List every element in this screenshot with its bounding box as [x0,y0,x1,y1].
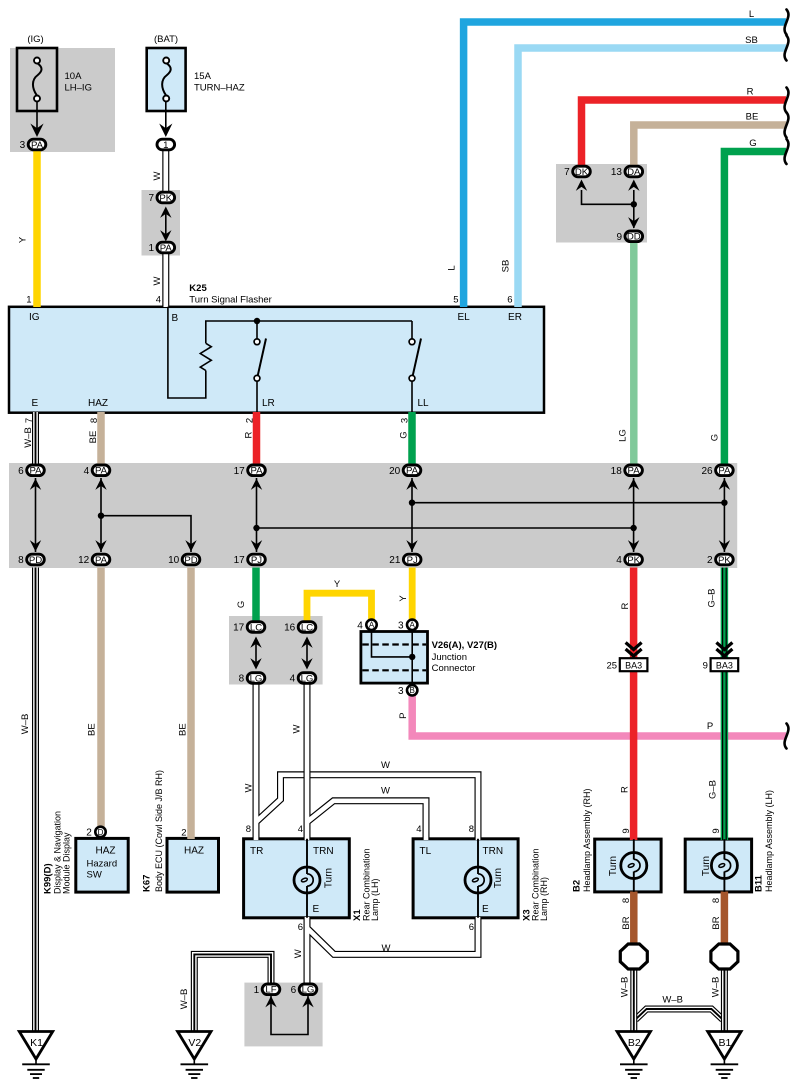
svg-text:R: R [620,786,631,793]
arrow down [30,540,41,551]
wire Y 16LC to junction 4A [307,593,372,620]
wire LC to LG [255,641,257,666]
svg-text:B: B [172,313,179,324]
svg-text:Turn: Turn [608,856,619,876]
svg-text:HAZ: HAZ [88,398,108,409]
arrow up [628,479,639,490]
wire junction 3A to 3B [411,632,413,685]
svg-text:BE: BE [88,431,99,444]
wire band column x=101 [100,478,102,552]
node 2PK branch [721,500,727,506]
svg-text:B2: B2 [572,880,583,892]
arrow up [251,479,262,490]
svg-text:Connector: Connector [432,663,476,674]
svg-text:W–B: W–B [23,427,34,448]
svg-text:9: 9 [621,828,632,833]
svg-text:Y: Y [398,595,409,602]
arrow into connector 1 [159,124,172,138]
svg-text:PK: PK [718,555,731,566]
break symbol wire R [785,88,789,113]
svg-text:LG: LG [302,985,315,996]
fuse 15A TURN-HAZ box [147,48,186,111]
svg-text:8: 8 [239,674,245,685]
wire B2 lamp internal [633,839,635,892]
svg-text:(IG): (IG) [27,34,43,45]
svg-text:W–B: W–B [20,714,31,735]
svg-text:7: 7 [24,418,35,423]
svg-text:5: 5 [453,294,458,305]
connector 26 PA [701,465,733,477]
wire DK to DA junction [582,190,634,204]
svg-text:L: L [749,9,754,20]
svg-text:4: 4 [357,620,363,631]
arrow down [95,540,106,551]
arrow down [251,540,262,551]
svg-text:DD: DD [627,232,641,243]
svg-text:17: 17 [234,555,246,566]
svg-text:LF: LF [265,985,276,996]
wire branch 4PA to 10PD [101,516,191,552]
wire band column x=724.4 [723,478,725,552]
svg-text:G: G [399,431,410,438]
svg-text:3: 3 [398,686,404,697]
arrow up at LC [250,637,261,648]
wire band column x=256.5 [256,478,258,552]
svg-text:R: R [747,87,754,98]
svg-text:15A: 15A [194,71,212,82]
connector 17 LC [233,622,265,634]
svg-text:8: 8 [469,824,474,835]
svg-text:Turn: Turn [701,856,712,876]
connector 4 LG [290,673,316,685]
svg-text:PA: PA [628,466,641,477]
svg-text:W: W [292,724,303,733]
svg-text:R: R [244,431,255,438]
svg-text:PJ: PJ [251,555,262,566]
arrow up [719,479,730,490]
svg-text:25: 25 [607,660,618,671]
break symbol wire SB [785,36,789,61]
svg-text:W: W [381,786,390,797]
wire band column x=35.5 [35,478,37,552]
svg-text:3: 3 [400,418,411,423]
wire K25 B pin to resistor [168,307,206,398]
arrow up at 6 LG [302,996,313,1007]
arrow chevron into BA3 [716,643,732,650]
wire LF to LG link [271,996,308,1035]
wire W-B ground V2 to 1LF [194,954,271,1031]
svg-text:4: 4 [298,824,303,835]
svg-text:PA: PA [250,466,263,477]
svg-text:8: 8 [711,898,722,903]
svg-text:(BAT): (BAT) [154,34,178,45]
connector 4 PK [616,554,642,566]
svg-text:TL: TL [420,846,432,857]
svg-text:Lamp (RH): Lamp (RH) [539,877,549,921]
node 17PA branch [253,525,259,531]
svg-text:LG: LG [618,429,629,442]
wire BE to connector DA [634,125,786,167]
svg-text:2: 2 [707,555,713,566]
wire to switch LR [256,321,258,339]
svg-text:LH–IG: LH–IG [65,83,92,94]
wire SB to K25 ER pin6 [518,48,786,307]
svg-text:8: 8 [18,555,24,566]
svg-text:8: 8 [89,418,100,423]
wire BE K25 HAZ to 4 PA [97,412,105,464]
ground B2 [617,1032,650,1079]
connector 6 PA [18,465,44,477]
svg-text:A: A [369,621,375,630]
wire BE 12PA to hazard switch [97,568,105,828]
connector 8 PD [18,554,44,566]
svg-text:Lamp (LH): Lamp (LH) [370,878,380,921]
svg-text:L: L [447,265,458,270]
lamp X3 Rear Combination Lamp RH block [413,839,518,918]
wire R K25 LR to 17 PA [253,412,261,464]
lamp B11 Headlamp Assembly LH block [685,839,751,892]
svg-text:4: 4 [616,555,622,566]
svg-text:SW: SW [87,870,102,881]
svg-text:R: R [620,602,631,609]
connector 2 PK [707,554,733,566]
arrow down [185,540,196,551]
svg-text:PA: PA [31,140,44,151]
svg-text:DK: DK [575,167,589,178]
wire W-B K25 E to 6 PA [32,412,39,464]
node junction connector [409,654,415,660]
wire switch to LL pin [411,381,413,412]
connector 7 PK [148,192,174,204]
svg-text:EL: EL [457,312,470,323]
connector 18 PA [611,465,643,477]
svg-text:B: B [410,686,415,695]
wire R to connector DK [582,100,787,167]
arrow down at 1 PA [160,230,171,241]
ground B1 [708,1032,741,1079]
svg-text:Headlamp Assembly (LH): Headlamp Assembly (LH) [764,790,774,892]
svg-text:IG: IG [29,312,40,323]
svg-text:4: 4 [290,674,296,685]
wire band column x=412 [411,478,413,552]
svg-text:BR: BR [621,916,632,929]
svg-text:PA: PA [95,466,108,477]
svg-text:1: 1 [148,243,154,254]
wire W-B noise filter to ground B2 [630,969,637,1032]
wire BE 10PD to K67 [187,568,195,840]
arrow chevron into BA3 [626,643,642,650]
wire band column x=633.6 [633,478,635,552]
svg-text:V2: V2 [188,1037,201,1049]
fuse element 15A TURN-HAZ [162,58,171,102]
svg-text:G–B: G–B [708,780,719,799]
svg-text:Y: Y [18,236,29,243]
svg-text:LL: LL [418,398,430,409]
node 20PA branch [409,500,415,506]
connector 20 PA [389,465,421,477]
svg-text:BE: BE [178,723,189,736]
svg-text:12: 12 [78,555,90,566]
svg-text:W–B: W–B [179,989,190,1010]
wire DA to DD [633,190,635,228]
grey panel (LC/LG connector pair) [229,616,323,685]
arrow down [628,540,639,551]
svg-text:LC: LC [250,622,262,633]
svg-text:PD: PD [184,555,197,566]
svg-text:G: G [749,138,756,149]
svg-text:G: G [236,601,247,608]
wire G to 26 PA [724,152,786,465]
wire X1 lamp internal [306,839,308,918]
ground K1 [19,1032,52,1079]
connector 2 D hazard switch [86,827,105,839]
svg-text:E: E [32,398,39,409]
svg-text:6: 6 [469,922,474,933]
svg-text:7: 7 [564,167,570,178]
svg-text:BA3: BA3 [625,660,642,670]
svg-text:18: 18 [611,466,623,477]
svg-text:E: E [482,904,489,915]
svg-text:Headlamp Assembly (RH): Headlamp Assembly (RH) [582,788,592,892]
bulb B2 turn lamp [621,853,647,879]
svg-text:2: 2 [181,828,186,839]
svg-text:21: 21 [389,555,401,566]
svg-text:Y: Y [334,579,341,590]
connector 13 DA [611,166,643,178]
svg-text:2: 2 [86,828,92,839]
wire to switch LL [411,321,413,339]
svg-text:6: 6 [291,985,297,996]
switch K99 Hazard SW block [76,838,128,892]
svg-text:ER: ER [508,312,522,323]
svg-text:B2: B2 [628,1037,641,1049]
svg-text:K1: K1 [30,1037,43,1049]
wire W 4LG to X1 TRN pin4 and X3 TL pin4 [307,684,426,840]
connector 3 PA below IG fuse [20,139,46,151]
grey panel (7PK/1PA connector pair) [142,190,181,256]
svg-text:W: W [293,949,304,958]
switch K25 LR contact [254,339,266,382]
svg-text:Turn: Turn [324,868,335,888]
fuse element 10A LH-IG [33,58,42,102]
connector 12 PA [78,554,110,566]
svg-text:1: 1 [26,294,31,305]
svg-text:Turn Signal Flasher: Turn Signal Flasher [189,294,272,305]
svg-text:BE: BE [746,112,759,123]
wire BR headlamp B11 to noise filter [721,892,729,946]
arrow down at LG [301,658,312,669]
break symbol wire L [785,10,789,35]
svg-text:B11: B11 [754,874,765,892]
wire R 4PK to headlamp B2 [630,568,638,841]
connector 4 A [357,620,376,632]
noise filter B1 ground [711,944,738,969]
grey panel (DK/DA/DD junction) [556,164,647,243]
wire branch 17PA to 4PK [257,527,634,529]
svg-text:BE: BE [87,723,98,736]
resistor K25 flasher [200,343,211,370]
arrow down at 9 DD [628,217,639,228]
svg-text:SB: SB [745,35,758,46]
noise filter B2 ground [620,944,647,969]
svg-text:TRN: TRN [483,846,504,857]
arrow up [30,479,41,490]
arrow down at LG [250,658,261,669]
grey panel (IG fuse area) [10,48,115,152]
lamp X1 Rear Combination Lamp LH block [244,839,350,918]
svg-text:10: 10 [168,555,180,566]
svg-text:LR: LR [262,398,275,409]
arrow into 3 PA [30,124,43,138]
wire G 17PJ to 17LC [252,568,260,621]
arrow up [95,479,106,490]
wire branch 20PA to 2PK [412,502,724,504]
svg-text:HAZ: HAZ [184,846,204,857]
bulb X1 turn lamp [294,867,320,893]
svg-text:20: 20 [389,466,401,477]
svg-text:PA: PA [29,466,42,477]
connector 9 DD [616,231,642,243]
svg-text:17: 17 [234,466,246,477]
svg-text:6: 6 [18,466,24,477]
wire BR headlamp B2 to noise filter [630,892,638,946]
svg-text:TURN–HAZ: TURN–HAZ [194,83,245,94]
svg-text:8: 8 [246,824,251,835]
connector 16 LC [284,622,316,634]
svg-text:2: 2 [245,418,256,423]
svg-text:E: E [313,904,320,915]
arrow up at 13 DA [628,180,639,191]
relay K25 Turn Signal Flasher block [9,307,544,413]
connector 10 PD [168,554,200,566]
svg-text:PA: PA [95,555,108,566]
wire P from junction 3B [412,696,786,737]
svg-text:13: 13 [611,167,623,178]
connector 3 A [398,620,417,632]
connector 1 below TURN-HAZ fuse [157,139,175,151]
svg-text:HAZ: HAZ [96,846,116,857]
bulb X3 turn lamp [465,867,491,893]
svg-text:DA: DA [627,167,641,178]
connector 9 BA3 [711,658,739,671]
wire X3 lamp internal [477,839,479,918]
wire LC to LG [306,641,308,666]
svg-text:BR: BR [711,916,722,929]
svg-text:A: A [410,621,416,630]
svg-text:3: 3 [398,620,404,631]
svg-text:LG: LG [301,673,314,684]
svg-text:G: G [710,434,721,441]
connector 6 LG [291,984,317,996]
svg-text:Hazard: Hazard [87,859,118,870]
svg-text:6: 6 [507,294,512,305]
break symbol wire BE [785,113,789,138]
svg-text:PK: PK [159,193,172,204]
wire W-B 8PD to ground K1 [32,568,39,1032]
svg-text:BA3: BA3 [716,660,733,670]
svg-text:7: 7 [148,193,154,204]
connector 4 PA [84,465,110,477]
svg-text:D: D [98,828,104,837]
break symbol wire P [785,724,789,749]
svg-text:W–B: W–B [620,977,631,998]
svg-text:10A: 10A [65,71,83,82]
svg-text:PJ: PJ [407,555,418,566]
svg-text:K67: K67 [142,875,153,892]
switch K25 LL contact [409,339,421,382]
arrow up at LC [301,637,312,648]
wire fuse BAT lead [165,101,167,133]
svg-text:W: W [381,760,390,771]
svg-text:8: 8 [621,898,632,903]
svg-text:17: 17 [233,623,245,634]
break symbol wire G [785,139,789,164]
node 4PK branch [630,525,636,531]
wire W-B crosslink between grounds [636,1009,723,1020]
lamp B2 Headlamp Assembly RH block [595,839,661,892]
svg-text:B1: B1 [718,1037,731,1049]
svg-text:W: W [382,943,391,954]
svg-text:W–B: W–B [662,994,683,1005]
node 4PA branch [98,513,104,519]
svg-text:W: W [152,276,163,285]
svg-text:1: 1 [254,985,260,996]
svg-text:TRN: TRN [313,846,334,857]
arrow up at 7 DK [576,180,587,191]
bulb B11 turn lamp [711,853,737,879]
svg-text:Body ECU (Cowl Side J/B RH): Body ECU (Cowl Side J/B RH) [154,770,164,892]
svg-text:9: 9 [616,232,622,243]
svg-text:PA: PA [406,466,419,477]
ground V2 [178,1032,211,1079]
wire 7PK to 1PA [165,210,167,238]
svg-text:LC: LC [301,622,313,633]
connector 8 LG [239,673,265,685]
wire switch to LR pin [256,381,258,412]
wire Y fuse IG to K25 pin1 [33,151,41,308]
svg-text:PK: PK [627,555,640,566]
svg-text:4: 4 [156,294,161,305]
wire junction 4A branch [372,632,413,657]
svg-text:Turn: Turn [493,868,504,888]
wire K25 internal bus [206,321,412,343]
wire Y 21PJ to junction 3A [409,568,416,620]
wire W X1 pin6 and X3 pin6 to 6LG [307,917,478,984]
svg-text:4: 4 [416,824,421,835]
svg-text:9: 9 [703,660,708,671]
svg-text:Junction: Junction [432,652,467,663]
svg-text:PA: PA [160,243,173,254]
arrow up at 1 LF [265,996,276,1007]
connector 25 BA3 [620,658,648,671]
svg-text:W: W [244,783,255,792]
svg-text:V26(A), V27(B): V26(A), V27(B) [432,640,497,651]
arrow up at 7 PK [160,207,171,218]
svg-text:6: 6 [298,922,303,933]
svg-text:P: P [398,713,409,719]
connector 1 LF [254,984,280,996]
arrow down [719,540,730,551]
connector 1 PA [148,242,174,254]
wire W 8LG to X1 TR pin8 and X3 TRN pin8 [256,684,478,840]
connector 3 B [398,685,417,697]
grey band (instrument panel connectors) [9,463,737,568]
wire G-B 2PK to headlamp B11 [723,568,727,841]
svg-text:1: 1 [163,140,168,151]
wire L to K25 EL pin5 [464,22,786,307]
svg-text:SB: SB [501,260,512,273]
connector 7 DK [564,166,590,178]
